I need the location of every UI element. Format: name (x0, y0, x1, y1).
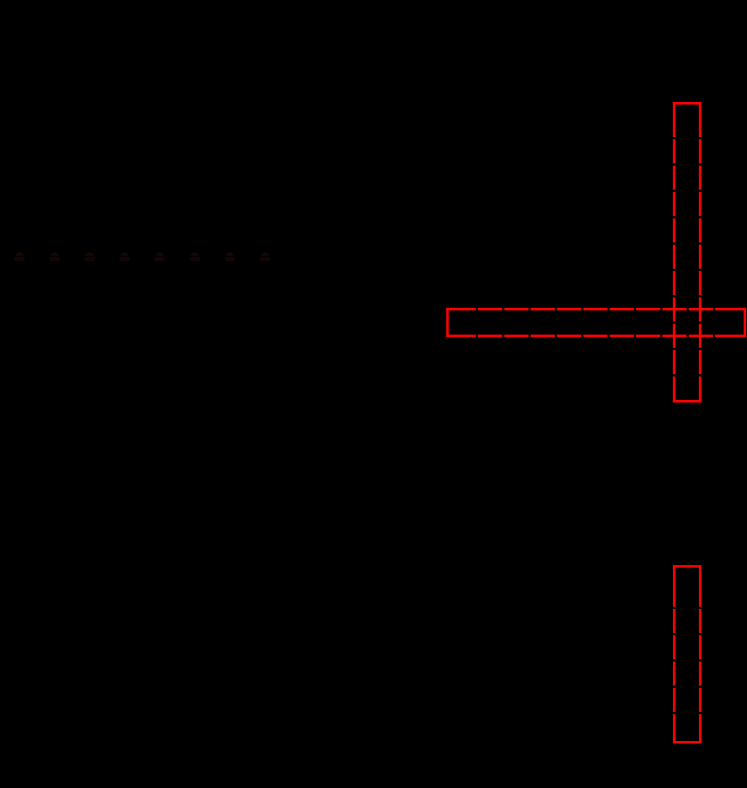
V2 dash gaps (673, 607, 702, 714)
faint food icon 1 (14, 252, 25, 261)
faint food icon 7 (224, 252, 235, 261)
H dash gaps (476, 308, 715, 338)
faint food icon 2 (49, 252, 60, 261)
faint food icon 6 (189, 252, 200, 261)
faint food icon 4 (119, 252, 130, 261)
faint food icon 8 (260, 252, 271, 261)
red dashed annotation box H (long horizontal) (448, 309, 745, 336)
red dashed annotation box V2 (vertical, lower right) (674, 566, 700, 742)
faint food icon 3 (84, 252, 95, 261)
red dashed annotation box V1 (tall vertical, upper right) (674, 103, 700, 401)
faint food icon 5 (154, 252, 165, 261)
V1 dash gaps (673, 137, 702, 376)
